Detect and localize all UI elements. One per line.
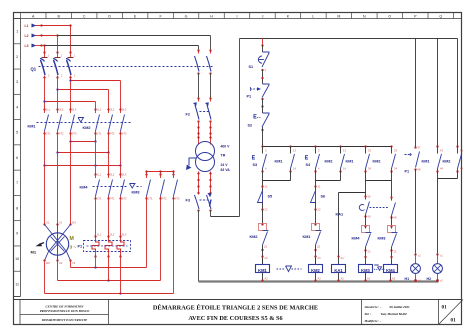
svg-text:W1: W1 [72, 221, 76, 225]
wire Q1 pole2 down [57, 78, 59, 110]
svg-text:KA1: KA1 [334, 268, 343, 273]
merge bar S3/KM1 [263, 172, 291, 181]
svg-text:5L3: 5L3 [122, 108, 127, 112]
coil KM1 [256, 256, 270, 282]
mechanical interlock KM1-KM2 [277, 266, 302, 272]
svg-text:A1: A1 [318, 256, 322, 260]
svg-text:H1: H1 [405, 277, 410, 281]
wire transformer secondary to F3 [197, 172, 211, 195]
svg-text:6T3: 6T3 [72, 132, 77, 136]
wire to lamp H2 [437, 179, 439, 253]
svg-text:H: H [210, 15, 213, 19]
svg-text:24 V: 24 V [221, 163, 229, 167]
svg-text:3L2: 3L2 [59, 108, 64, 112]
wire L2 branch to control transformer column [58, 36, 211, 51]
auxiliary contact KM2 13-14 [325, 147, 347, 173]
svg-text:4: 4 [16, 105, 18, 109]
svg-text:Dessiné le : -: Dessiné le : - [364, 305, 382, 309]
svg-text:01: 01 [451, 318, 457, 324]
svg-text:6T3: 6T3 [122, 132, 127, 136]
svg-text:A1: A1 [341, 256, 345, 260]
supply terminal L3 [25, 44, 45, 48]
control neutral rail drop [198, 211, 200, 282]
svg-text:H2: H2 [427, 277, 432, 281]
interlock contact KM3 21-22 [378, 225, 398, 258]
svg-text:A1: A1 [265, 256, 269, 260]
svg-text:P1: P1 [247, 95, 252, 99]
svg-text:KM2: KM2 [311, 268, 320, 273]
svg-text:2: 2 [16, 55, 18, 59]
overload NC contact P1 (95-96) [247, 70, 270, 108]
wire phase2 to motor V1 [57, 153, 59, 225]
svg-text:S1: S1 [249, 65, 254, 69]
title block [14, 300, 464, 325]
contactor KM3 star (3 poles with star bridge) [130, 170, 181, 200]
indicator lamp H2 [427, 253, 444, 283]
svg-text:KM1: KM1 [303, 235, 311, 239]
coil KM4 [384, 259, 398, 282]
svg-text:V1: V1 [59, 221, 63, 225]
svg-text:M: M [70, 236, 74, 242]
motor M1 (3-phase) [31, 221, 77, 266]
supply terminal L1 [25, 24, 71, 28]
bus motor U2 to KM3 pole2 via P1 pole2 [58, 257, 161, 282]
stop button S2 [248, 99, 270, 147]
merge bar KM1/KM2 43-44 [438, 172, 458, 179]
svg-text:N: N [363, 15, 366, 19]
control bus [261, 145, 392, 147]
wire F2 to transformer [197, 122, 211, 141]
wire to KM4 pole3 [120, 166, 122, 175]
crossover bar phase3 to KM2 pole3 [69, 79, 120, 109]
svg-text:L3: L3 [25, 44, 29, 48]
svg-text:KM1: KM1 [28, 125, 36, 129]
svg-text:M1: M1 [31, 250, 37, 255]
svg-text:KM2: KM2 [443, 160, 451, 164]
auxiliary contact KM2 33-34 [373, 147, 398, 173]
supply terminal L2 [25, 34, 58, 38]
limit switch S6 [311, 181, 326, 212]
merge bar S4/KM2 [316, 172, 341, 181]
svg-text:A2: A2 [367, 277, 371, 281]
svg-text:U1: U1 [46, 221, 50, 225]
svg-text:KM1: KM1 [346, 160, 354, 164]
svg-text:2T1: 2T1 [46, 132, 51, 136]
control bottom rail [199, 280, 439, 282]
wire to KM4 pole1 [95, 142, 97, 175]
svg-text:O: O [388, 15, 391, 19]
timed contact KA1 (delta side) [390, 181, 397, 229]
wire KM3 pole2 down [160, 199, 162, 281]
wire phase1 to motor U1 [44, 166, 46, 225]
breaker F3 (control secondary protection) [186, 193, 212, 212]
coil KA1 (timer) [332, 255, 346, 281]
svg-text:9: 9 [16, 232, 18, 236]
svg-text:I: I [237, 15, 238, 19]
svg-text:06 Juillet 2021: 06 Juillet 2021 [390, 305, 410, 309]
svg-text:P1: P1 [405, 170, 410, 174]
feed bar to KA1 coil [339, 181, 366, 265]
svg-text:KM4: KM4 [386, 268, 395, 273]
svg-text:4T2: 4T2 [59, 132, 64, 136]
svg-text:11: 11 [15, 282, 19, 286]
svg-text:A2: A2 [265, 277, 269, 281]
svg-text:KM3: KM3 [132, 191, 140, 195]
control transformer TR 400V/24V [186, 141, 230, 173]
svg-text:S3: S3 [253, 163, 258, 167]
wire KM3 pole3 down [173, 199, 175, 294]
svg-text:7: 7 [16, 181, 18, 185]
svg-text:U2: U2 [59, 261, 63, 265]
svg-text:Q: Q [439, 15, 442, 19]
contactor KM4 delta (3 poles) [80, 173, 129, 201]
wire Q1 pole1 down [44, 78, 46, 110]
contactor KM1 (3 poles) [28, 108, 131, 136]
merge bar KM1/KM2 33-34 [366, 172, 392, 181]
svg-text:5L3: 5L3 [122, 233, 127, 237]
output bar KM1.T1 to KM2.T3 [43, 134, 121, 167]
svg-text:G: G [185, 15, 188, 19]
svg-text:3: 3 [16, 80, 18, 84]
svg-text:5L3: 5L3 [122, 173, 127, 177]
wire L1 drop to Q1 pole 3 [69, 24, 71, 52]
svg-text:F3: F3 [186, 199, 190, 203]
svg-text:J: J [262, 15, 264, 19]
svg-text:4T2: 4T2 [110, 197, 115, 201]
auxiliary contact KM1 33-34 [346, 147, 372, 173]
svg-text:1L1: 1L1 [97, 108, 102, 112]
svg-text:2T1: 2T1 [97, 197, 102, 201]
svg-text:4T2: 4T2 [162, 197, 167, 201]
svg-text:8: 8 [16, 206, 18, 210]
svg-text:6: 6 [16, 156, 18, 160]
svg-text:01: 01 [442, 305, 448, 311]
wire L2 drop to Q1 pole 2 [56, 34, 58, 52]
svg-text:Q1: Q1 [31, 67, 37, 72]
limit switch S5 [258, 181, 273, 212]
svg-text:KM2: KM2 [373, 160, 381, 164]
coil KM3 [359, 259, 373, 282]
svg-text:4T2: 4T2 [110, 132, 115, 136]
control feed riser to top rail [211, 39, 240, 217]
svg-text:Modifié le : -: Modifié le : - [364, 319, 382, 323]
svg-text:D: D [108, 15, 111, 19]
interlock contact KM1 21-22 [303, 210, 322, 266]
svg-text:10: 10 [15, 257, 19, 261]
svg-text:1L1: 1L1 [46, 108, 51, 112]
svg-text:63 VA: 63 VA [221, 168, 231, 172]
svg-text:W2: W2 [46, 261, 50, 265]
wire phase3 to motor W1 [70, 142, 72, 225]
wire Q1 aux poles down to F2 [199, 74, 211, 99]
auxiliary contact KM2 43-44 [443, 39, 464, 173]
svg-text:P1: P1 [78, 245, 83, 249]
svg-text:C: C [83, 15, 86, 19]
svg-text:22: 22 [317, 245, 321, 249]
svg-text:3L2: 3L2 [110, 233, 115, 237]
svg-text:KM1: KM1 [275, 160, 283, 164]
svg-text:KM3: KM3 [378, 237, 386, 241]
svg-text:3 ~: 3 ~ [70, 245, 77, 251]
svg-text:DEPARTEMENT ELECTRICITE: DEPARTEMENT ELECTRICITE [41, 318, 88, 322]
svg-text:AVEC FIN DE COURSES S5 & S6: AVEC FIN DE COURSES S5 & S6 [188, 315, 282, 322]
fault contact P1 97-98 [405, 39, 421, 253]
svg-text:V2: V2 [72, 261, 76, 265]
output bar KM1.T3 to KM2.T1 [69, 134, 96, 143]
svg-text:S6: S6 [321, 195, 326, 199]
svg-text:2T1: 2T1 [97, 132, 102, 136]
crossover bar phase2 to KM2 pole2 [56, 88, 108, 109]
start button S4 [305, 147, 320, 173]
circuit breaker Q1 auxiliary poles for control supply [195, 49, 212, 74]
svg-text:A2: A2 [392, 277, 396, 281]
svg-text:KM3: KM3 [361, 268, 370, 273]
svg-text:KM: KM [375, 263, 379, 267]
crossover bar phase1 to KM2 pole1 [43, 100, 95, 109]
output bar KM1.T2 to KM2.T2 [56, 134, 109, 154]
indicator lamp H1 [405, 253, 422, 283]
svg-text:CENTRE DE FORMATION: CENTRE DE FORMATION [46, 305, 85, 309]
coil KM2 [309, 256, 323, 282]
auxiliary contact KM1 13-14 [275, 147, 297, 173]
wire to KM4 pole2 [108, 153, 110, 175]
wire Q1 pole3 down [70, 78, 72, 110]
thermal overload relay P1 [78, 199, 131, 258]
svg-text:KM2: KM2 [325, 160, 333, 164]
svg-text:A2: A2 [341, 277, 345, 281]
start button S3 [252, 147, 267, 173]
svg-text:KM4: KM4 [80, 186, 89, 190]
svg-text:22: 22 [264, 245, 268, 249]
circuit breaker Q1 (3 main poles) [31, 51, 215, 78]
svg-text:KM1: KM1 [258, 268, 267, 273]
breaker F2 (control primary protection) [186, 97, 212, 122]
svg-text:S2: S2 [248, 124, 253, 128]
interlock contact KM2 21-22 [250, 210, 269, 266]
interlock contact KM4 21-22 [352, 225, 372, 258]
svg-text:2T1: 2T1 [148, 197, 153, 201]
auxiliary contact KM1 43-44 [422, 39, 444, 173]
svg-text:DÉMARRAGE ÉTOILE TRIANGLE 2 SE: DÉMARRAGE ÉTOILE TRIANGLE 2 SENS DE MARC… [153, 304, 318, 312]
svg-text:KA1: KA1 [336, 213, 344, 217]
svg-text:KM2: KM2 [250, 235, 258, 239]
svg-text:KM2: KM2 [83, 126, 91, 130]
svg-text:A2: A2 [318, 277, 322, 281]
bus motor W2 to KM3 pole3 via P1 pole3 [45, 257, 174, 295]
wire KM3 pole1 down [146, 199, 148, 268]
svg-text:6T3: 6T3 [122, 197, 127, 201]
svg-text:Tony Marinel BADZ: Tony Marinel BADZ [381, 312, 407, 316]
wire L3 branch to control transformer column [45, 46, 199, 51]
svg-text:5: 5 [16, 131, 18, 135]
timed contact KA1 (star side) [336, 193, 389, 229]
svg-text:PROFESSIONNELLE DON BOSCO: PROFESSIONNELLE DON BOSCO [40, 309, 90, 313]
svg-text:1: 1 [16, 30, 18, 34]
svg-text:S5: S5 [268, 195, 273, 199]
control top rail [240, 38, 458, 40]
svg-text:L: L [312, 15, 314, 19]
wire L3 drop to Q1 pole 1 [43, 44, 45, 52]
svg-text:5L3: 5L3 [72, 108, 77, 112]
contactor KM2 (3 poles) [78, 108, 127, 136]
svg-text:L2: L2 [25, 34, 29, 38]
svg-text:1L1: 1L1 [97, 173, 102, 177]
svg-text:6T3: 6T3 [175, 197, 180, 201]
svg-text:1L1: 1L1 [97, 233, 102, 237]
bus motor V2 to KM3 pole1 via P1 pole1 [71, 257, 147, 269]
svg-text:Par :: Par : [365, 312, 371, 316]
stop button S1 [249, 39, 270, 73]
svg-text:KM4: KM4 [352, 237, 361, 241]
svg-text:L1: L1 [25, 24, 29, 28]
svg-text:M: M [337, 15, 340, 19]
mechanical interlock KM3-KM4 [374, 263, 385, 270]
svg-text:TR: TR [221, 154, 226, 158]
svg-text:3L2: 3L2 [110, 108, 115, 112]
svg-text:400 V: 400 V [221, 145, 231, 149]
svg-text:KM1: KM1 [422, 160, 430, 164]
svg-text:F2: F2 [186, 113, 190, 117]
svg-text:3L2: 3L2 [110, 173, 115, 177]
